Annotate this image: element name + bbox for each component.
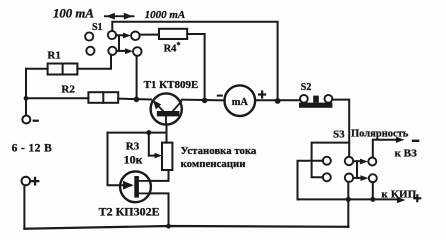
switch S3 pole bottom [345,174,353,182]
switch S3 pole top [345,157,353,165]
junction dot KIP right [370,197,375,202]
range double arrow [104,13,135,20]
wire S3 cross branch [312,143,350,178]
wire T1 collector to meter [182,99,225,102]
svg-text:к ВЗ: к ВЗ [395,147,417,159]
wire top rail [112,22,277,101]
wire R4 to collector rail [187,34,204,100]
switch S3 contact left bottom [323,173,331,181]
junction dot source rail [166,224,171,229]
svg-text:к КИП: к КИП [381,189,416,201]
switch S1 contact left bottom [86,47,94,55]
wire KIP line with arrow [298,197,406,203]
switch S3 wiper arrow top [353,159,368,165]
switch S1 pole bottom [108,47,116,55]
switch S3 contact left top [323,157,331,165]
switch S3 contact right top [368,158,376,166]
meter minus sign [217,95,223,97]
meter plus sign [258,90,266,98]
wire R1 right to S1 pole bottom [77,55,111,69]
switch S3 wiper arrow bottom [353,175,368,181]
wire R1 left to left rail [26,68,48,70]
wire R2 left [26,97,88,99]
wire S3 left top to KIP line [298,161,323,200]
wire S3 right bottom down [372,182,374,199]
resistor R1 [48,64,78,75]
junction dot left rail [24,96,29,101]
wire S1 right top to R4 [140,34,159,36]
svg-text:S1: S1 [92,22,103,33]
junction dot collector rail [202,98,208,104]
polarity arrow to VZ [373,137,419,143]
svg-text:S2: S2 [301,82,312,93]
terminal plus [22,177,40,186]
svg-text:компенсации: компенсации [181,158,246,170]
transistor T1 [151,93,182,124]
wiper arrow [149,153,162,159]
wire T1 base down [166,125,168,143]
wire wiper down [148,133,150,156]
meter mA [225,85,256,116]
terminal minus [22,116,39,124]
wire S1 contact right bottom down [136,56,138,99]
wire left rail [25,69,27,116]
resistor R2 [88,92,118,103]
junction dot meter plus rail [275,98,281,104]
wire S2 to S3 pole top [332,100,349,157]
switch S1 contact right top [131,32,140,41]
switch S3 mechanical link [356,161,358,178]
switch S1 wiper arrow bottom [117,48,133,54]
svg-text:Т2 КП302Е: Т2 КП302Е [99,205,160,219]
svg-text:10к: 10к [124,152,143,166]
svg-text:R2: R2 [61,84,75,96]
svg-text:R1: R1 [47,50,60,62]
transistor T2 [120,171,151,202]
svg-text:6 - 12 В: 6 - 12 В [12,143,53,155]
wire base node horizontal [108,132,167,134]
switch S3 contact right bottom [369,174,377,182]
junction dot wiper tap [146,130,151,135]
switch S1 contact left top [85,32,93,40]
wire gate branch [108,133,132,186]
potentiometer R3 body [162,143,172,170]
wire S3 pole bottom to bottom rail [347,182,349,227]
wire plus terminal to bottom rail [23,185,25,228]
svg-text:mA: mA [232,97,249,108]
junction dot emitter wire [134,97,140,103]
wire R2 right to T1 emitter [118,98,151,101]
label KIP plus [413,194,421,202]
switch S1 pole top [108,31,116,39]
svg-text:1000 mA: 1000 mA [145,9,186,21]
svg-text:Полярность: Полярность [351,129,409,140]
wire T2 drain to R3 bottom [150,170,169,181]
wire S3 right top up [372,140,374,158]
switch S1 mechanical link [118,35,120,51]
junction dot KIP middle [346,197,351,202]
switch S1 wiper arrow top [116,33,131,39]
svg-text:Установка тока: Установка тока [181,145,257,157]
svg-text:100 mA: 100 mA [53,6,94,20]
wire meter to S2 [255,99,300,101]
resistor R4 [159,29,187,39]
wire T2 source to bottom rail [150,193,169,226]
svg-text:Т1 КТ809Е: Т1 КТ809Е [144,79,199,91]
svg-text:S3: S3 [333,129,345,141]
switch S2 [299,95,332,108]
wire bottom rail [24,226,348,229]
switch S1 contact right bottom [133,47,142,56]
svg-text:R3: R3 [126,140,140,152]
